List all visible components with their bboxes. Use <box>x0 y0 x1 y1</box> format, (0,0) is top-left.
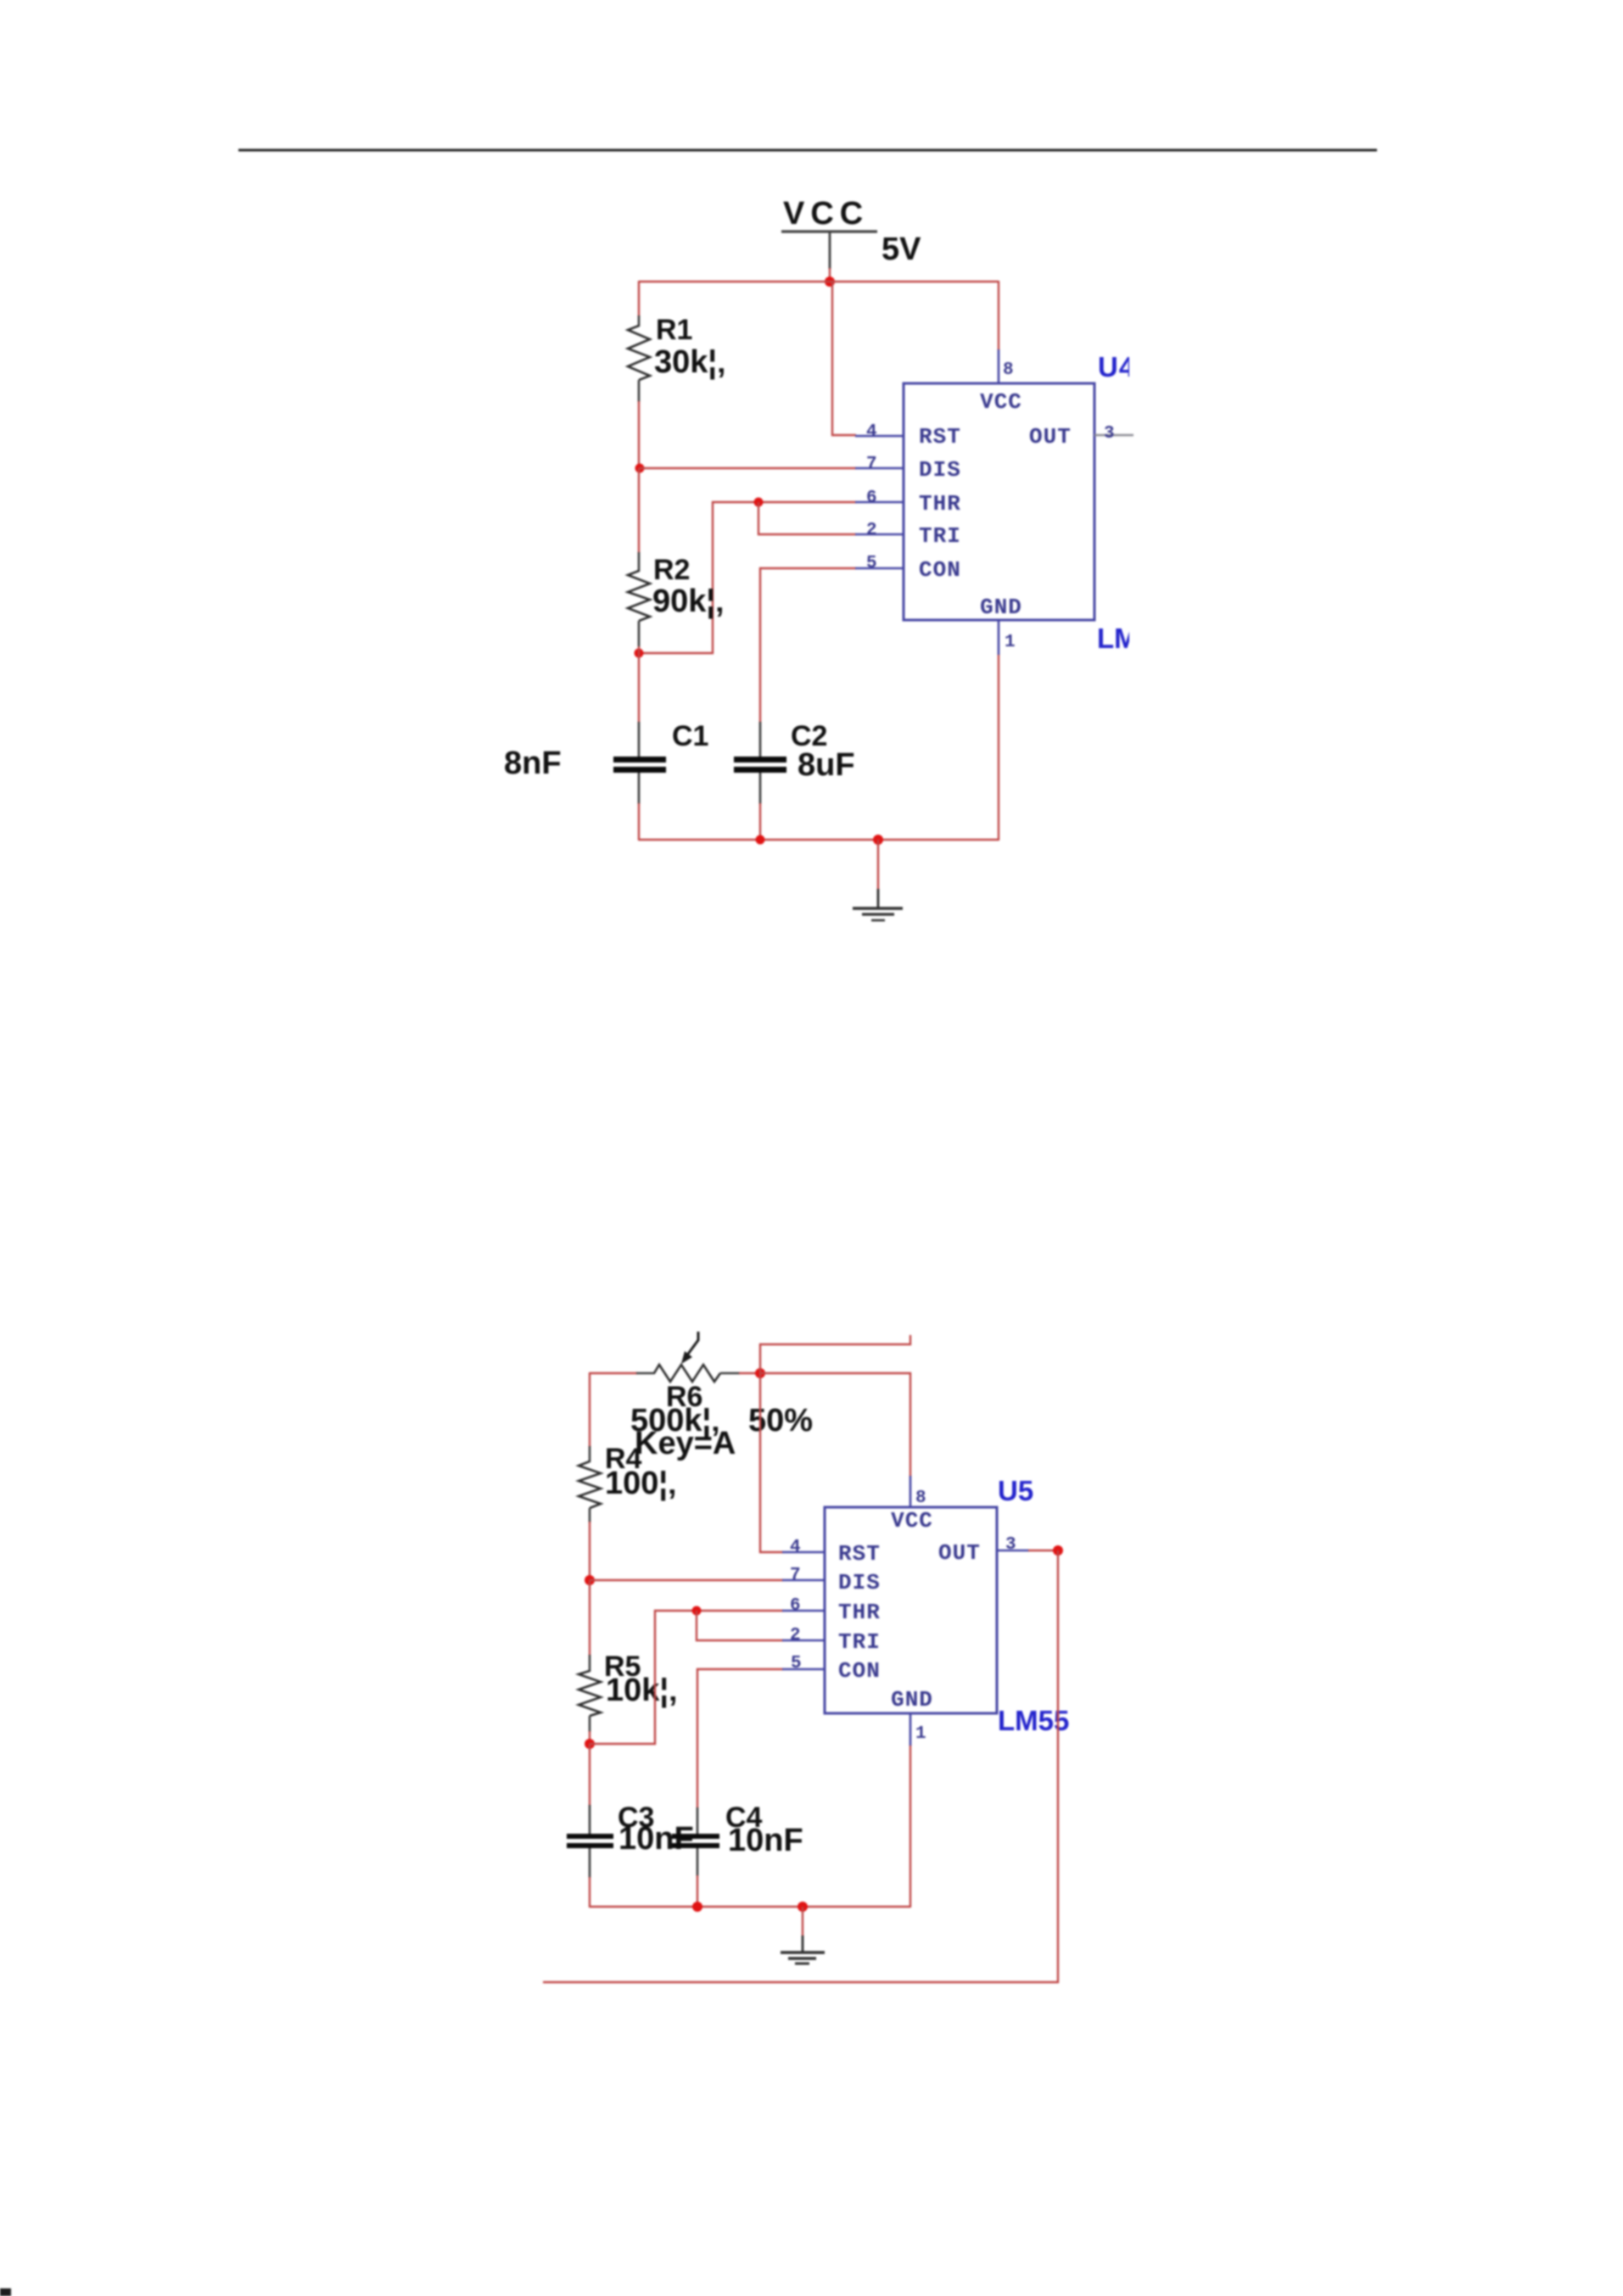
wire pot wiper right to node <box>739 1372 760 1374</box>
wire node up and right (cropped stub) <box>760 1335 910 1373</box>
wire node to pin 8 <box>760 1373 910 1477</box>
svg-text:6: 6 <box>790 1596 801 1616</box>
wire CON (pin 5) to C2 <box>760 568 856 723</box>
node R2 bottom junction <box>635 649 644 658</box>
capacitor C1 8nF <box>504 720 708 804</box>
svg-text:OUT: OUT <box>1029 424 1072 450</box>
pin 4 stub <box>782 1551 825 1554</box>
wire OUT down <box>1057 1550 1059 1983</box>
wire left rail R4 to DIS node <box>589 1522 590 1581</box>
wire left rail top to R1 <box>638 281 640 316</box>
svg-text:3: 3 <box>1104 424 1115 444</box>
op-amp/timer U5 IC body <box>825 1507 997 1713</box>
node DIS junction <box>635 464 645 473</box>
page header rule <box>238 149 1377 152</box>
wire VCC top rail <box>639 281 999 282</box>
svg-text:R2: R2 <box>653 554 690 586</box>
pin 3 stub <box>997 1550 1029 1552</box>
node THR junction <box>692 1606 702 1616</box>
ground <box>853 840 903 920</box>
wire DIS (pin 7) <box>640 467 856 469</box>
capacitor C2 8uF <box>734 720 855 804</box>
svg-text:R1: R1 <box>656 314 692 346</box>
wire OUT bottom run <box>543 1981 1059 1983</box>
svg-text:DIS: DIS <box>919 457 961 483</box>
svg-text:10k¦‚: 10k¦‚ <box>606 1673 678 1708</box>
wire bottom rail <box>590 1906 910 1908</box>
pin 6 stub <box>855 501 904 504</box>
svg-text:1: 1 <box>1005 633 1016 652</box>
wire node down to RST (pin 4) <box>760 1373 783 1552</box>
svg-text:U5: U5 <box>998 1475 1033 1506</box>
svg-text:VCC: VCC <box>783 196 869 232</box>
svg-text:VCC: VCC <box>980 389 1022 415</box>
op-amp/timer U4 IC body <box>904 383 1094 620</box>
node ground junction <box>798 1902 808 1912</box>
svg-text:30k¦‚: 30k¦‚ <box>654 344 726 380</box>
node ground junction <box>873 835 883 845</box>
svg-text:4: 4 <box>866 422 877 442</box>
pin 2 stub <box>782 1640 825 1642</box>
wire top-left corner to pot <box>590 1372 637 1374</box>
wire bottom rail <box>639 839 999 841</box>
resistor R2 90k <box>628 552 725 647</box>
wire VCC stem <box>829 268 831 282</box>
wire left rail R5 node to C3 <box>589 1744 590 1806</box>
svg-text:OUT: OUT <box>938 1540 981 1566</box>
wire CON (pin 5) to C4 <box>697 1669 783 1808</box>
wire THR (pin 6) <box>639 502 856 653</box>
node pot junction <box>755 1368 765 1378</box>
svg-text:100¦‚: 100¦‚ <box>605 1466 677 1501</box>
pin 5 stub <box>855 567 904 570</box>
wire OUT (pin 3) <box>1028 1550 1059 1551</box>
wire C2 to bottom rail <box>759 803 761 841</box>
svg-text:8: 8 <box>915 1489 926 1508</box>
svg-text:VCC: VCC <box>891 1508 933 1533</box>
svg-text:RST: RST <box>919 424 961 450</box>
svg-text:2: 2 <box>866 521 877 540</box>
pin 8 stub <box>909 1476 912 1507</box>
wire C3 to bottom rail <box>589 1877 590 1908</box>
svg-text:4: 4 <box>790 1538 801 1557</box>
wire VCC junction to RST (pin 4) <box>832 282 856 435</box>
capacitor C3 10nF <box>567 1802 694 1878</box>
pin 3 stub (cropped, gray) <box>1094 434 1133 437</box>
svg-text:8: 8 <box>1003 360 1014 380</box>
pin 7 stub <box>855 467 904 470</box>
stray mark bottom-left corner <box>0 2288 11 2296</box>
wire THR (pin 6) from R5 node <box>590 1611 783 1744</box>
potentiometer R6 500k <box>630 1332 740 1461</box>
svg-text:90k¦‚: 90k¦‚ <box>652 584 725 619</box>
wire C1 to bottom rail <box>638 803 640 841</box>
pin 2 stub <box>855 533 904 536</box>
wire C4 to bottom rail <box>697 1875 698 1908</box>
svg-text:GND: GND <box>891 1687 933 1712</box>
svg-text:5: 5 <box>866 554 877 573</box>
svg-text:1: 1 <box>915 1724 926 1744</box>
power symbol VCC 5V <box>781 196 921 269</box>
svg-text:6: 6 <box>866 489 877 508</box>
svg-text:TRI: TRI <box>919 523 961 549</box>
node C2 bottom junction <box>756 835 765 845</box>
svg-text:10nF: 10nF <box>728 1823 803 1858</box>
wire GND pin 1 to bottom rail <box>909 1745 911 1908</box>
svg-text:5: 5 <box>791 1654 802 1673</box>
svg-text:TRI: TRI <box>838 1629 881 1655</box>
node VCC junction <box>825 277 835 287</box>
svg-text:DIS: DIS <box>838 1570 881 1595</box>
pin 8 stub <box>998 349 1000 383</box>
svg-text:THR: THR <box>919 491 961 517</box>
wire GND pin 1 to bottom rail <box>998 654 999 841</box>
svg-text:3: 3 <box>1005 1535 1016 1555</box>
svg-text:GND: GND <box>980 595 1022 620</box>
resistor R1 30k <box>628 314 726 402</box>
wire THR to TRI (pin 2) <box>697 1611 783 1640</box>
svg-text:7: 7 <box>866 455 877 474</box>
resistor R5 10k <box>579 1651 678 1732</box>
svg-text:C1: C1 <box>672 720 708 752</box>
wire DIS (pin 7) <box>590 1579 783 1581</box>
capacitor C4 10nF <box>672 1802 803 1876</box>
wire left rail DIS to R2 <box>638 468 640 553</box>
pin 4 stub <box>855 435 904 438</box>
svg-text:THR: THR <box>838 1600 881 1625</box>
svg-text:CON: CON <box>838 1658 881 1684</box>
svg-text:7: 7 <box>790 1566 801 1585</box>
svg-text:RST: RST <box>838 1541 881 1567</box>
pin 5 stub <box>782 1668 825 1671</box>
wire left rail R2 to C1 <box>638 646 640 723</box>
node R5 bottom junction <box>585 1739 595 1749</box>
svg-text:CON: CON <box>919 557 961 583</box>
svg-text:8uF: 8uF <box>798 747 855 783</box>
svg-text:50%: 50% <box>748 1403 813 1438</box>
pin 1 stub <box>998 620 1000 655</box>
wire left rail pot to R4 <box>589 1372 590 1447</box>
wire R5 to bottom node <box>589 1731 590 1745</box>
ground <box>781 1907 825 1964</box>
pin 1 stub <box>909 1713 912 1746</box>
wire THR to TRI (pin 2) <box>758 502 856 534</box>
node OUT junction <box>1053 1545 1063 1556</box>
pin 6 stub <box>782 1610 825 1612</box>
wire left rail R1 to DIS node <box>638 401 640 469</box>
wire left rail DIS to R5 <box>589 1580 590 1656</box>
resistor R4 100 <box>579 1443 677 1522</box>
svg-text:Key=A: Key=A <box>635 1426 736 1461</box>
svg-text:5V: 5V <box>881 232 921 267</box>
wire VCC rail to pin 8 <box>998 281 999 350</box>
node THR junction <box>754 498 764 507</box>
svg-text:2: 2 <box>790 1626 801 1645</box>
node C4 bottom junction <box>692 1902 702 1912</box>
node DIS junction <box>585 1575 595 1585</box>
pin 7 stub <box>782 1579 825 1582</box>
svg-text:8nF: 8nF <box>504 746 562 781</box>
